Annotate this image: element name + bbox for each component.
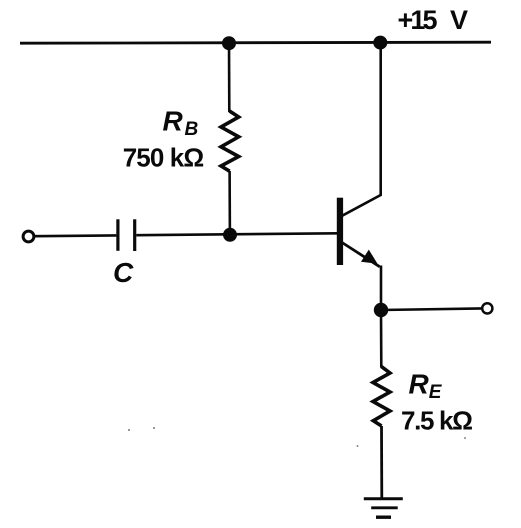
output terminal circle [482,303,492,313]
capacitor C left plate [116,219,119,251]
svg-text:7.5 kΩ: 7.5 kΩ [401,406,473,436]
wire +15V supply rail [20,42,491,43]
wire rail to RB top [228,43,231,112]
resistor RB [221,111,239,171]
transistor Q1 emitter lead [342,243,380,267]
wire capacitor to transistor base [136,233,337,235]
transistor Q1 base bar [337,198,343,265]
wire input to capacitor [34,234,116,237]
resistor RE [373,367,390,427]
net label +15 V [398,5,469,35]
svg-text:C: C [113,257,134,288]
capacitor C right plate [133,219,136,251]
svg-text:B: B [185,119,199,140]
wire RB bottom to base node [228,171,231,235]
node emitter junction dot [374,303,388,317]
svg-text:R: R [409,369,430,400]
node base junction dot [223,228,237,242]
wire output node to RE top [380,310,383,368]
scan speck 3 [357,445,359,447]
wire emitter to output node [380,266,383,312]
ground symbol [364,499,403,517]
svg-text:E: E [429,382,443,403]
label RB [163,105,199,140]
scan speck 1 [128,429,130,431]
input terminal circle [23,231,34,242]
svg-text:R: R [163,105,184,136]
wire output node to terminal [381,308,483,310]
scan speck 2 [153,427,155,429]
node junction dot left on rail [222,36,236,50]
svg-text:V: V [450,5,468,35]
transistor Q1 collector lead [342,43,381,216]
node junction dot right on rail [373,36,387,50]
scan speck 4 [464,437,466,439]
label RE [409,369,443,404]
transistor Q1 emitter arrowhead [361,250,378,264]
wire RE bottom to ground [380,426,383,498]
svg-text:750 kΩ: 750 kΩ [123,143,205,173]
svg-text:+15: +15 [398,5,438,35]
